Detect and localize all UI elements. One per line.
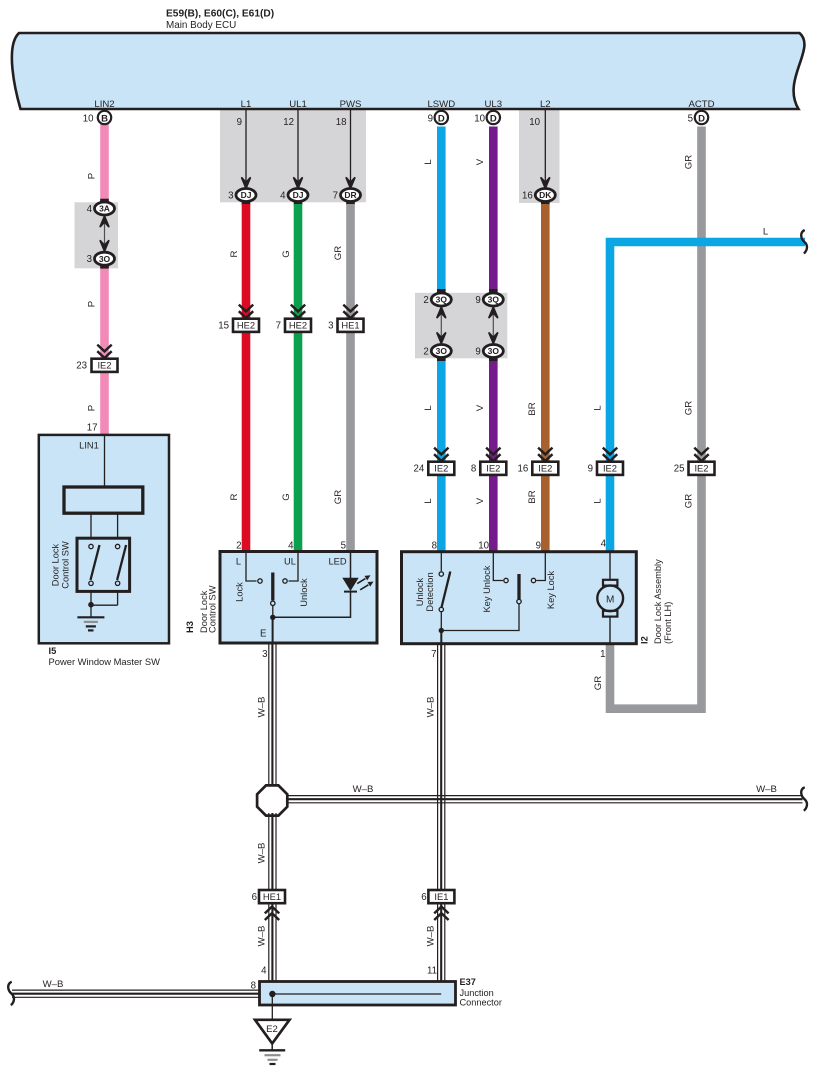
svg-text:15: 15	[218, 321, 229, 332]
wire W-B from I2 pin 7 down to IE1	[426, 644, 445, 891]
svg-text:3: 3	[228, 191, 233, 202]
switch contacts I5	[89, 544, 93, 548]
svg-text:3O: 3O	[436, 346, 448, 356]
svg-text:GR: GR	[593, 676, 604, 690]
svg-text:BR: BR	[527, 490, 538, 503]
break symbol on wire L at right edge	[801, 230, 807, 254]
svg-text:LED: LED	[328, 557, 346, 567]
connector DJ pin 4	[288, 189, 308, 202]
pin 5 circle D (ACTD)	[695, 111, 708, 124]
svg-text:PWS: PWS	[340, 99, 362, 110]
svg-text:LSWD: LSWD	[427, 99, 455, 110]
svg-text:D: D	[698, 114, 705, 125]
svg-text:BR: BR	[527, 402, 538, 415]
svg-text:IE2: IE2	[486, 463, 500, 474]
wire L from LSWD	[423, 127, 446, 553]
svg-text:H3: H3	[185, 621, 195, 633]
connector 3O pin 2	[431, 345, 451, 358]
junction dot I5	[88, 602, 94, 608]
svg-text:2: 2	[423, 295, 428, 306]
svg-text:L: L	[593, 405, 604, 411]
wires from LIN module to switch	[90, 513, 92, 538]
switch lever H3	[271, 573, 274, 601]
svg-text:11: 11	[427, 966, 437, 977]
connector DK pin 16	[535, 189, 555, 202]
svg-text:B: B	[101, 114, 108, 125]
svg-text:4: 4	[288, 541, 294, 552]
svg-text:IE1: IE1	[434, 891, 448, 902]
connector IE2 pin 25	[694, 448, 708, 461]
svg-text:18: 18	[336, 117, 347, 128]
svg-text:W–B: W–B	[257, 697, 268, 718]
svg-text:3O: 3O	[488, 346, 500, 356]
svg-text:9: 9	[237, 117, 242, 128]
junction node octagon	[257, 785, 287, 815]
svg-text:23: 23	[76, 361, 87, 372]
shading panel under L1/UL1/PWS connectors	[220, 110, 366, 202]
wire W-B from left edge	[12, 979, 260, 997]
svg-text:IE2: IE2	[603, 463, 617, 474]
connector 3Q pin 2	[437, 289, 446, 293]
pin 10 line to DK (L2)	[544, 110, 546, 182]
ground wiring inside I5	[90, 591, 92, 617]
svg-text:Door Lock Assembly: Door Lock Assembly	[653, 559, 663, 644]
block I2 Door Lock Assembly (Front LH)	[402, 552, 637, 644]
svg-text:5: 5	[341, 541, 346, 552]
svg-text:LIN1: LIN1	[79, 441, 99, 451]
svg-text:Junction: Junction	[460, 988, 494, 998]
svg-text:25: 25	[674, 464, 685, 475]
svg-text:3: 3	[262, 649, 267, 660]
svg-text:DJ: DJ	[241, 190, 252, 200]
svg-text:Connector: Connector	[460, 998, 502, 1008]
svg-text:10: 10	[529, 117, 540, 128]
svg-text:10: 10	[478, 541, 489, 552]
svg-text:E37: E37	[460, 977, 476, 987]
svg-text:9: 9	[475, 347, 480, 358]
pin 9 circle D (LSWD)	[435, 111, 448, 124]
connector 3A pin 4	[100, 199, 109, 203]
svg-text:L1: L1	[241, 99, 252, 110]
block I5 Power Window Master SW	[39, 435, 169, 643]
svg-text:Key Unlock: Key Unlock	[482, 565, 492, 612]
svg-text:DR: DR	[344, 190, 356, 200]
svg-text:2: 2	[423, 347, 428, 358]
svg-text:L: L	[423, 405, 434, 411]
connector IE2 pin 24	[434, 448, 448, 461]
svg-text:P: P	[87, 301, 98, 307]
LED symbol	[342, 578, 358, 591]
svg-text:UL: UL	[284, 557, 296, 567]
switch blades I5	[91, 545, 100, 580]
svg-text:16: 16	[522, 191, 533, 202]
connector IE2 pin 23	[97, 345, 111, 358]
svg-text:GR: GR	[333, 246, 344, 260]
svg-text:I5: I5	[49, 645, 57, 656]
svg-text:IE2: IE2	[538, 463, 552, 474]
svg-text:GR: GR	[684, 401, 695, 415]
svg-text:4: 4	[601, 539, 607, 550]
connector 3Q pin 9	[489, 289, 498, 293]
wire GR from ACTD	[593, 127, 706, 709]
svg-text:L: L	[423, 498, 434, 504]
pin 10 circle B	[98, 111, 111, 124]
svg-text:P: P	[87, 173, 98, 179]
svg-text:V: V	[475, 497, 486, 504]
wire W-B from HE1 down to E37	[257, 904, 277, 994]
svg-text:HE1: HE1	[341, 320, 359, 331]
pin 12 line to DJ (UL1)	[297, 110, 299, 182]
svg-text:W–B: W–B	[426, 926, 437, 947]
svg-text:E59(B), E60(C), E61(D): E59(B), E60(C), E61(D)	[166, 9, 274, 20]
svg-text:1: 1	[600, 649, 605, 660]
svg-text:12: 12	[283, 117, 294, 128]
svg-text:LIN2: LIN2	[94, 99, 114, 110]
block H3 Door Lock Control SW	[220, 552, 377, 644]
unlock contact	[283, 579, 287, 583]
ground E2	[271, 994, 273, 1020]
svg-text:V: V	[475, 404, 486, 411]
svg-text:3O: 3O	[99, 254, 111, 264]
wire R from L1	[229, 204, 250, 552]
svg-text:I2: I2	[640, 636, 650, 644]
svg-text:3: 3	[328, 321, 333, 332]
connector IE2 pin 8	[486, 448, 500, 461]
svg-text:Door Lock: Door Lock	[51, 543, 61, 586]
svg-text:3Q: 3Q	[488, 295, 500, 305]
svg-text:Key Lock: Key Lock	[546, 571, 556, 610]
svg-text:(Front LH): (Front LH)	[663, 602, 673, 644]
svg-text:Detection: Detection	[425, 572, 435, 611]
break symbol on W-B at left edge	[8, 982, 14, 1006]
svg-text:W–B: W–B	[257, 926, 268, 947]
svg-text:7: 7	[333, 191, 338, 202]
junction dot H3	[270, 615, 275, 620]
svg-text:4: 4	[280, 191, 286, 202]
svg-text:HE1: HE1	[263, 891, 281, 902]
svg-text:P: P	[87, 405, 98, 411]
svg-text:V: V	[475, 158, 486, 165]
svg-text:Unlock: Unlock	[299, 578, 309, 607]
lock contact	[258, 579, 262, 583]
svg-text:L2: L2	[540, 99, 551, 110]
svg-text:GR: GR	[333, 490, 344, 504]
wire inside I5 from LIN1	[104, 436, 106, 487]
svg-text:9: 9	[428, 114, 433, 125]
wire BR from L2	[527, 204, 550, 552]
svg-text:UL1: UL1	[289, 99, 307, 110]
svg-text:E2: E2	[266, 1024, 278, 1035]
key lock contact	[531, 578, 535, 582]
svg-text:IE2: IE2	[694, 463, 708, 474]
motor M	[609, 553, 611, 580]
internal link inside E37	[272, 993, 441, 995]
svg-text:D: D	[438, 114, 445, 125]
svg-text:2: 2	[236, 541, 241, 552]
svg-text:Control SW: Control SW	[61, 541, 71, 589]
key switch lever	[517, 574, 520, 599]
svg-text:9: 9	[588, 464, 593, 475]
svg-text:24: 24	[414, 464, 425, 475]
svg-text:5: 5	[688, 114, 693, 125]
svg-text:Power Window Master SW: Power Window Master SW	[49, 656, 161, 667]
svg-text:IE2: IE2	[434, 463, 448, 474]
svg-text:L: L	[763, 227, 769, 238]
svg-text:10: 10	[474, 114, 485, 125]
ground symbol I5	[77, 616, 104, 618]
wire W-B from H3 terminal E to junction	[257, 643, 277, 800]
svg-text:4: 4	[261, 966, 267, 977]
connector HE2 pin 15	[239, 305, 253, 318]
wire L from right edge to door lock motor	[593, 227, 806, 553]
connector HE2 pin 7	[291, 305, 305, 318]
svg-text:8: 8	[432, 541, 437, 552]
wire G from UL1	[281, 204, 302, 552]
shading panel under 3Q/3O connector pairs	[415, 293, 507, 359]
svg-text:Main Body ECU: Main Body ECU	[166, 20, 236, 31]
svg-text:6: 6	[252, 892, 257, 903]
svg-text:D: D	[490, 114, 497, 125]
svg-text:E: E	[260, 629, 267, 640]
pin 10 circle D (UL3)	[487, 111, 500, 124]
svg-text:L: L	[236, 557, 241, 567]
svg-text:4: 4	[87, 204, 93, 215]
break symbol on W-B at right edge	[801, 787, 807, 811]
connector DR pin 7	[341, 189, 361, 202]
arrows between 3A and 3O	[104, 218, 106, 249]
junction dot E37	[269, 991, 275, 997]
svg-text:W–B: W–B	[43, 979, 64, 990]
svg-text:G: G	[281, 250, 292, 257]
LIN module box inside I5	[64, 487, 143, 513]
svg-text:17: 17	[87, 423, 98, 434]
connector DJ pin 3	[236, 189, 256, 202]
svg-text:UL3: UL3	[484, 99, 502, 110]
svg-text:3A: 3A	[99, 204, 110, 214]
svg-text:9: 9	[475, 295, 480, 306]
connector HE1 pin 3	[343, 305, 357, 318]
connector 3O pin 3	[95, 252, 115, 265]
shading panel under 3A/3O connector pair	[75, 202, 119, 268]
unlock detection switch	[440, 553, 442, 571]
svg-text:DJ: DJ	[293, 190, 304, 200]
svg-text:W–B: W–B	[756, 784, 777, 795]
svg-text:9: 9	[536, 541, 541, 552]
connector 3O pin 9	[483, 345, 503, 358]
svg-text:8: 8	[471, 464, 476, 475]
connector IE2 pin 9	[603, 448, 617, 461]
svg-text:7: 7	[431, 649, 436, 660]
door lock control switch box inside I5	[77, 538, 130, 591]
LED light arrows	[357, 579, 365, 584]
svg-text:3: 3	[87, 254, 92, 265]
svg-text:W–B: W–B	[353, 784, 374, 795]
svg-text:16: 16	[518, 464, 529, 475]
key unlock contact	[493, 553, 503, 581]
svg-text:7: 7	[276, 321, 281, 332]
svg-text:G: G	[281, 493, 292, 500]
wire V from UL3	[475, 127, 498, 553]
wire GR from PWS	[333, 204, 355, 552]
svg-text:W–B: W–B	[426, 697, 437, 718]
wire W-B from octagon down to HE1	[257, 813, 277, 890]
svg-text:HE2: HE2	[289, 320, 307, 331]
pin 9 line to DJ (L1)	[245, 110, 247, 182]
connector IE2 pin 16	[538, 448, 552, 461]
svg-text:IE2: IE2	[97, 360, 111, 371]
shading panel under L2 connector	[519, 110, 560, 203]
svg-text:DK: DK	[539, 190, 552, 200]
svg-text:R: R	[229, 493, 240, 500]
connector IE1 pin 6	[428, 890, 454, 903]
svg-text:8: 8	[251, 981, 256, 992]
svg-text:W–B: W–B	[257, 843, 268, 864]
junction dot I2	[439, 628, 444, 633]
junction connector E37	[260, 982, 456, 1006]
link from junction to key switch lever	[441, 604, 519, 631]
svg-text:R: R	[229, 250, 240, 257]
wire W-B from IE1 down to E37	[426, 904, 445, 994]
svg-text:GR: GR	[684, 155, 695, 169]
Main Body ECU band	[12, 33, 805, 109]
pin 18 line to DR (PWS)	[350, 110, 352, 182]
wire P from LIN2 pin 10	[87, 122, 109, 435]
wire W-B horizontal to right edge	[280, 784, 803, 803]
svg-text:ACTD: ACTD	[688, 99, 714, 110]
svg-text:Unlock: Unlock	[415, 577, 425, 606]
svg-text:L: L	[423, 159, 434, 165]
svg-text:HE2: HE2	[237, 320, 255, 331]
connector HE1 pin 6	[259, 890, 285, 903]
svg-text:3Q: 3Q	[436, 295, 448, 305]
svg-text:Control SW: Control SW	[208, 585, 218, 633]
svg-text:L: L	[593, 498, 604, 504]
svg-text:10: 10	[83, 113, 94, 124]
svg-text:M: M	[606, 594, 614, 605]
svg-text:Lock: Lock	[235, 582, 245, 602]
LED branch line	[273, 592, 351, 617]
svg-text:GR: GR	[684, 494, 695, 508]
svg-text:6: 6	[421, 892, 426, 903]
